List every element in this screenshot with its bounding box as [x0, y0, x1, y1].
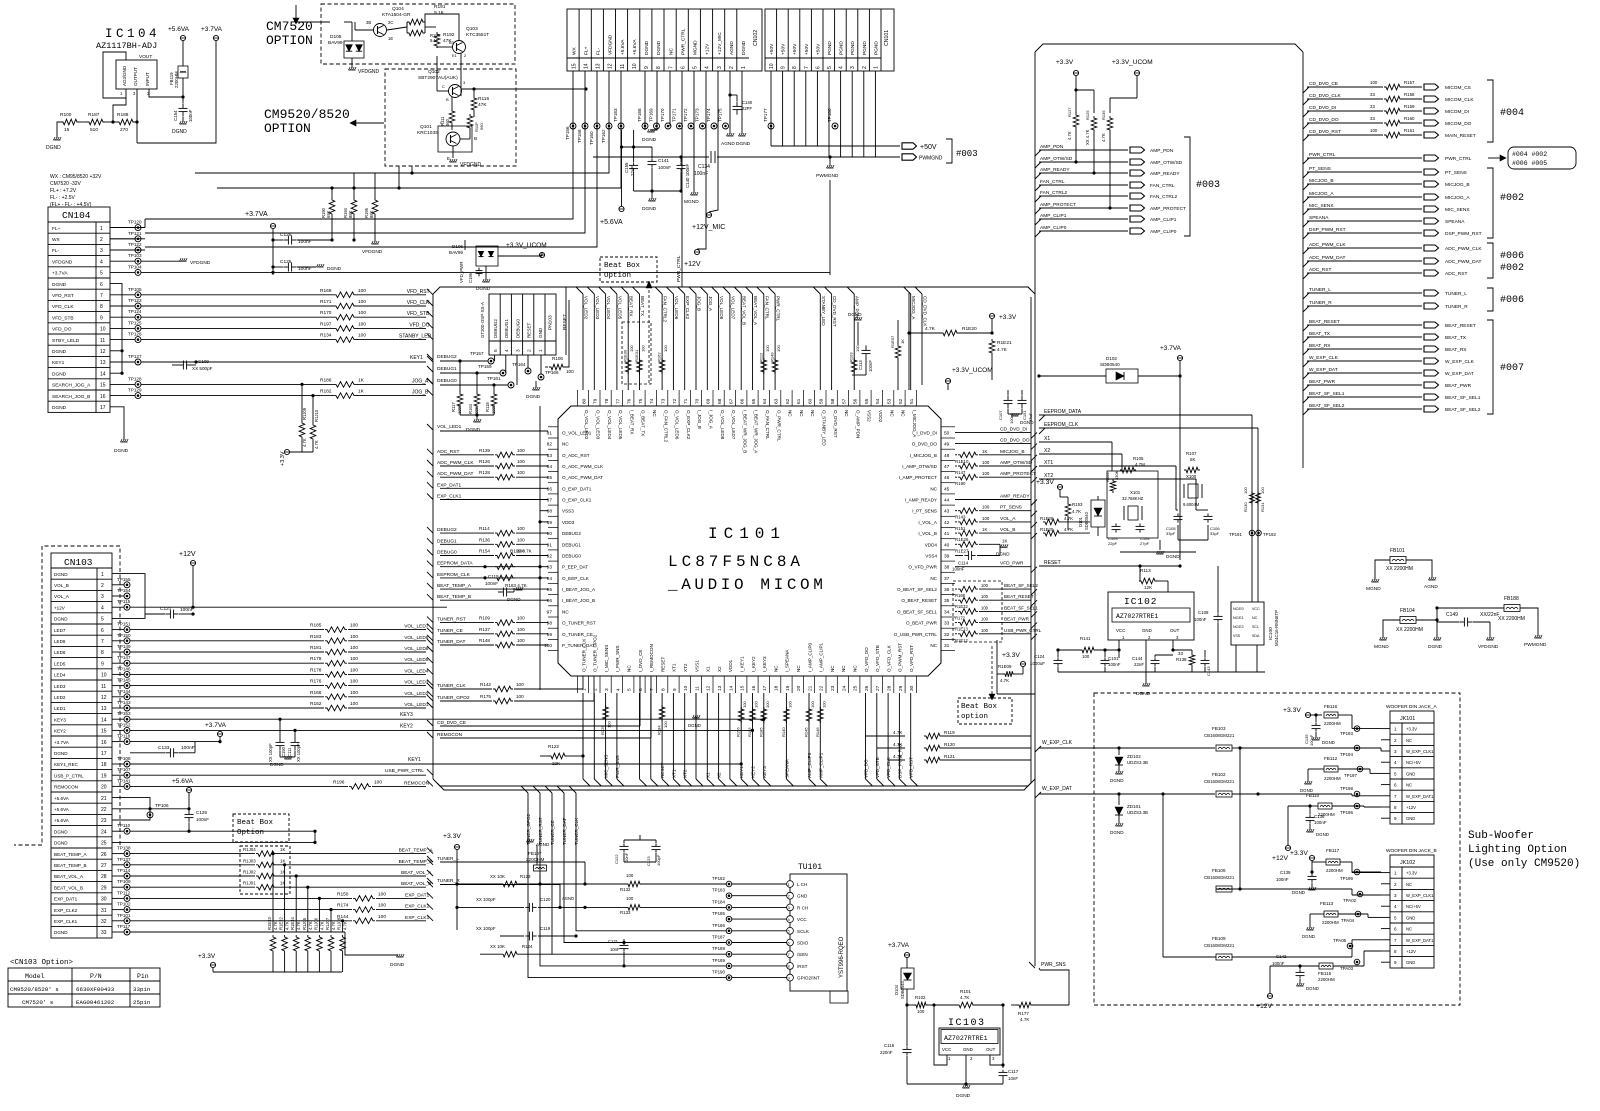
svg-text:KEY2: KEY2	[751, 766, 756, 778]
svg-text:PT_SENS: PT_SENS	[1000, 505, 1022, 511]
svg-text:AMP_CLIP0: AMP_CLIP0	[1150, 229, 1177, 235]
svg-text:5: 5	[693, 66, 699, 69]
svg-text:TP138: TP138	[117, 846, 131, 851]
net tag MAIN_RESET	[1424, 132, 1439, 138]
ground DGND right of C125	[317, 266, 324, 268]
svg-text:6630XF00433: 6630XF00433	[76, 986, 115, 993]
svg-text:14: 14	[101, 717, 107, 723]
svg-text:OUT: OUT	[1170, 628, 1180, 633]
resistor R150 100 row EXP_DAT1	[130, 897, 352, 899]
svg-text:W_EXP_DAT: W_EXP_DAT	[1309, 367, 1338, 373]
svg-text:EEPROM_CLK: EEPROM_CLK	[437, 572, 471, 578]
resistor R104 330K	[1110, 479, 1116, 493]
svg-text:R105: R105	[1133, 456, 1144, 461]
svg-text:100nF: 100nF	[1314, 820, 1327, 825]
svg-text:6: 6	[100, 282, 103, 288]
test point TP112	[124, 895, 130, 901]
wire VFD_PWR RESET row	[955, 566, 1031, 568]
svg-text:+3.7VA: +3.7VA	[1160, 345, 1182, 352]
wire VSS3 VDD3 stubs	[540, 510, 548, 512]
svg-text:330K: 330K	[1114, 470, 1119, 480]
svg-text:4.7K: 4.7K	[308, 921, 313, 930]
test point TP193	[1354, 726, 1360, 732]
resistor R135 4.7K	[1107, 116, 1113, 132]
svg-text:R1E26: R1E26	[955, 537, 969, 542]
TU101 pin 2 GND	[787, 892, 794, 899]
svg-text:32: 32	[944, 632, 950, 638]
svg-text:C150: C150	[281, 746, 286, 757]
svg-text:R190: R190	[955, 481, 966, 486]
svg-text:O_VOL_LED7: O_VOL_LED7	[731, 410, 736, 440]
svg-text:I_DVD_CE: I_DVD_CE	[638, 650, 643, 672]
svg-text:9.1K: 9.1K	[434, 10, 445, 16]
svg-text:GND: GND	[963, 1047, 973, 1052]
svg-text:REMOCON: REMOCON	[404, 780, 430, 786]
ground MGND FB101	[1372, 581, 1379, 583]
svg-text:ADJ/GND: ADJ/GND	[122, 65, 127, 86]
net tag PWMGND	[902, 154, 917, 160]
net tag W_EXP_DAT	[1424, 370, 1439, 376]
ground DGND left	[57, 122, 61, 138]
svg-text:34: 34	[944, 609, 950, 615]
svg-text:89: 89	[547, 520, 553, 526]
svg-text:R162: R162	[657, 352, 662, 362]
resistor R182 1K row JOG_B	[141, 395, 334, 397]
svg-text:MAIN_RESET: MAIN_RESET	[1445, 133, 1476, 139]
power +3.3V right of IC top	[989, 313, 994, 318]
wire IC101 bottom pin 2 drop	[593, 693, 595, 779]
connector CN104	[48, 207, 110, 412]
capacitor C134 100nF series	[709, 151, 717, 163]
svg-text:25: 25	[853, 685, 859, 691]
svg-text:NC: NC	[652, 410, 657, 417]
arrow into CM7520 box	[295, 5, 297, 18]
svg-text:VFD_STB: VFD_STB	[875, 757, 880, 778]
svg-text:100nF: 100nF	[181, 745, 195, 751]
svg-text:ADC_RST: ADC_RST	[1309, 267, 1331, 273]
svg-text:1E: 1E	[388, 36, 393, 41]
svg-text:C121: C121	[608, 939, 619, 944]
svg-text:B: B	[474, 136, 477, 141]
resistor R1E22 4.7K vertical	[284, 865, 286, 932]
svg-text:1K: 1K	[982, 527, 987, 532]
svg-text:TP121: TP121	[128, 231, 142, 236]
svg-text:DEBUG2: DEBUG2	[493, 319, 498, 338]
resistor R1E30 100 on drop BEAT_RX	[625, 358, 631, 374]
svg-text:TUNER_CE: TUNER_CE	[550, 820, 555, 845]
svg-text:2200HM: 2200HM	[1322, 920, 1339, 925]
wire AMP_PROTECT row block003	[1035, 208, 1041, 214]
svg-text:7: 7	[649, 688, 655, 691]
svg-text:VFDGND: VFDGND	[1478, 644, 1499, 650]
capacitor C154 100nF	[182, 97, 184, 103]
test point TP156	[570, 123, 576, 129]
net tag PT_SENS	[1424, 169, 1439, 175]
svg-text:100: 100	[663, 721, 668, 728]
svg-text:W_EXP_DAT: W_EXP_DAT	[1445, 371, 1474, 377]
svg-text:VOL_LED5: VOL_LED5	[404, 657, 429, 663]
capacitor C155 22uF	[633, 162, 635, 165]
svg-text:GT200-OSP-SS-A: GT200-OSP-SS-A	[480, 302, 485, 338]
ground AGND FB101	[1429, 579, 1436, 581]
test point TP196	[1354, 803, 1360, 809]
svg-text:BEAT_RX: BEAT_RX	[1445, 347, 1467, 353]
svg-text:CB1608GM221: CB1608GM221	[1204, 875, 1235, 880]
svg-text:47: 47	[944, 464, 950, 470]
svg-text:30: 30	[101, 897, 107, 903]
capacitor C140 100uF	[680, 157, 682, 162]
svg-text:R187: R187	[88, 112, 100, 118]
wire row AMP_OTW/SD from IC101 pin 47	[955, 465, 957, 467]
svg-text:TP171: TP171	[672, 108, 677, 122]
svg-text:100nF: 100nF	[1272, 961, 1285, 966]
svg-text:R197: R197	[320, 321, 332, 327]
svg-text:+5.6VA: +5.6VA	[172, 778, 194, 785]
wire drop EXP_CLK2 to IC101 top pin 71	[678, 287, 685, 294]
svg-text:TP107: TP107	[117, 767, 131, 772]
power +3.3V bottom-left	[210, 962, 215, 967]
svg-text:R140: R140	[781, 727, 786, 737]
svg-text:DEBUG1: DEBUG1	[437, 366, 457, 372]
wire BEAT_RESET row right column	[1303, 325, 1309, 331]
resistor R103 100 on drop AMP_PDN	[851, 358, 857, 374]
right block bus vertical	[1302, 52, 1304, 468]
dashed box beat reset resistors	[953, 581, 1002, 642]
svg-text:BEAT_VOL_B: BEAT_VOL_B	[401, 881, 431, 887]
svg-text:TP127: TP127	[128, 354, 142, 359]
svg-text:56: 56	[853, 398, 859, 404]
svg-text:NC: NC	[627, 665, 632, 672]
vertical taps to JK102 nets	[1239, 748, 1241, 889]
svg-text:VOL_LED7: VOL_LED7	[730, 296, 735, 320]
svg-text:FL+: FL+	[52, 226, 61, 232]
test point TP123	[135, 303, 141, 309]
svg-text:AMP_CLIP0: AMP_CLIP0	[807, 752, 812, 778]
svg-text:R157: R157	[1404, 80, 1415, 85]
svg-text:2200HM: 2200HM	[1324, 776, 1341, 781]
svg-text:O_VOL_LED2: O_VOL_LED2	[584, 410, 589, 440]
svg-text:BEAT_VOL_A: BEAT_VOL_A	[753, 296, 758, 326]
svg-text:4: 4	[1394, 760, 1397, 765]
svg-text:TP110: TP110	[117, 823, 131, 828]
svg-text:FL- : +2.5V: FL- : +2.5V	[50, 195, 76, 201]
svg-text:61: 61	[796, 398, 802, 404]
svg-text:L CH: L CH	[797, 882, 807, 887]
wire drop BEAT_VOL_A to IC101 top pin 65	[746, 287, 753, 294]
svg-text:4.7K: 4.7K	[997, 347, 1008, 353]
svg-text:O_EEP_CLK: O_EEP_CLK	[562, 576, 590, 581]
arrow CM9520 option	[356, 122, 384, 124]
svg-text:BEAT_SF_SEL2: BEAT_SF_SEL2	[1004, 583, 1038, 588]
svg-text:3B: 3B	[366, 20, 371, 25]
svg-text:43: 43	[944, 509, 950, 515]
svg-text:ADC_PWM_DAT: ADC_PWM_DAT	[1309, 255, 1345, 261]
svg-text:NC/E1: NC/E1	[1233, 616, 1244, 620]
svg-text:+5.6VA: +5.6VA	[168, 26, 190, 33]
resistor R190 68K vertical	[329, 198, 335, 216]
svg-text:R1J10: R1J10	[314, 409, 319, 422]
svg-text:1000uF: 1000uF	[1030, 661, 1045, 666]
svg-text:+3.3V: +3.3V	[1283, 707, 1301, 714]
svg-text:10: 10	[100, 327, 106, 333]
svg-text:3: 3	[100, 248, 103, 254]
svg-text:R123: R123	[520, 874, 531, 879]
wire W_EXP_DAT1 to JK101	[1290, 793, 1352, 795]
capacitor C135 100nF	[1315, 715, 1317, 722]
svg-text:DGND: DGND	[327, 266, 342, 272]
svg-text:100: 100	[742, 701, 747, 708]
svg-text:UDZS3.3B: UDZS3.3B	[1127, 810, 1148, 815]
connector CN102	[567, 9, 762, 71]
resistor R140 100 on drop pin 19	[784, 707, 790, 723]
svg-text:PGND: PGND	[873, 41, 879, 55]
test point TP125	[135, 325, 141, 331]
svg-text:39: 39	[944, 554, 950, 560]
svg-text:R131: R131	[1260, 502, 1265, 512]
svg-text:JOG_A: JOG_A	[708, 296, 713, 312]
svg-text:KEY3: KEY3	[54, 717, 66, 722]
svg-text:PWR_CTRL: PWR_CTRL	[1445, 156, 1472, 162]
svg-text:DEBUG0: DEBUG0	[515, 319, 520, 338]
svg-text:100pF: 100pF	[656, 854, 661, 866]
svg-text:26: 26	[101, 852, 107, 858]
svg-text:TP180: TP180	[827, 108, 832, 122]
dashed box Beat Box Option left	[233, 814, 289, 842]
svg-text:PWR_CTRL: PWR_CTRL	[776, 296, 781, 322]
svg-text:R1J07: R1J07	[325, 917, 330, 930]
test point TP168	[642, 123, 648, 129]
svg-text:100: 100	[358, 333, 366, 339]
power +3.3V block003	[1073, 70, 1078, 75]
svg-text:77: 77	[615, 398, 621, 404]
svg-text:GND: GND	[1142, 628, 1152, 633]
CN104 row wires	[110, 227, 145, 229]
svg-text:MGND: MGND	[1366, 586, 1381, 592]
svg-text:RESET: RESET	[660, 762, 665, 778]
svg-text:O_EXP_CLK1: O_EXP_CLK1	[562, 498, 592, 503]
test point TP110	[124, 828, 130, 834]
svg-text:TP177: TP177	[763, 108, 768, 122]
ground VFDGND below R195	[374, 230, 376, 242]
capacitor C133 100nF	[165, 752, 170, 754]
svg-text:O_STANBY_LED: O_STANBY_LED	[822, 410, 827, 446]
resistor R164 100K	[476, 373, 478, 392]
svg-text:DGND: DGND	[642, 206, 657, 212]
svg-text:O_FAN_CTRL: O_FAN_CTRL	[765, 410, 770, 440]
svg-text:NC/E0: NC/E0	[1233, 607, 1244, 611]
resistors EEPROM rows	[495, 564, 515, 570]
svg-text:R137: R137	[479, 627, 490, 632]
wire CN104 pin5 +3.7VA rail	[141, 271, 830, 273]
svg-text:VFDGND: VFDGND	[358, 69, 380, 75]
wire drop CD_DVD_RST to IC101 top pin 58	[825, 287, 832, 294]
svg-text:CM7520' s: CM7520' s	[22, 999, 53, 1006]
test point TP152	[124, 727, 130, 733]
svg-text:_AUDIO MICOM: _AUDIO MICOM	[667, 576, 826, 594]
svg-text:+12V: +12V	[179, 551, 196, 558]
svg-text:2: 2	[862, 66, 868, 69]
svg-text:KEY2: KEY2	[400, 723, 413, 729]
net tag AMP_OTW/SD	[1130, 159, 1145, 165]
svg-text:EAG00461202: EAG00461202	[76, 999, 115, 1006]
svg-text:KEY3: KEY3	[400, 712, 413, 718]
svg-text:KEY1_REC: KEY1_REC	[54, 762, 79, 767]
ground DGND crystals	[1159, 540, 1161, 550]
wire CN102 pin15 WX staircase	[145, 71, 573, 219]
svg-text:R156: R156	[736, 727, 741, 737]
wire IC101 bottom pin 7 drop	[650, 693, 652, 779]
dashed box CM9520/8520 OPTION	[385, 69, 516, 166]
svg-text:1: 1	[1394, 871, 1397, 876]
test point TP184	[726, 905, 732, 911]
svg-text:D102: D102	[1106, 356, 1117, 361]
test point TP174	[711, 123, 717, 129]
capacitor C124 1000uF	[1057, 657, 1059, 660]
bracket #003 right	[1184, 137, 1190, 236]
IC101 body outline	[558, 406, 941, 676]
net tag TUNER_R	[1424, 303, 1439, 309]
svg-text:12: 12	[101, 695, 107, 701]
crystal X101 32.768KHZ circuit box	[1107, 471, 1158, 538]
svg-text:49: 49	[944, 442, 950, 448]
svg-text:C144: C144	[1132, 656, 1143, 661]
svg-text:DGND: DGND	[172, 129, 187, 135]
svg-text:O_BEAT_TX: O_BEAT_TX	[641, 410, 646, 436]
svg-text:PWMGND: PWMGND	[816, 173, 839, 179]
svg-text:51: 51	[909, 398, 915, 404]
svg-text:VOL_B: VOL_B	[1000, 527, 1015, 533]
svg-text:3: 3	[717, 66, 723, 69]
svg-text:AMP_READY: AMP_READY	[1000, 494, 1030, 500]
svg-text:BAV99: BAV99	[328, 40, 343, 46]
svg-text:23: 23	[830, 685, 836, 691]
svg-text:36: 36	[944, 587, 950, 593]
svg-text:BEAT_SF_SEL2: BEAT_SF_SEL2	[1309, 403, 1345, 409]
resistor R106 100	[545, 366, 548, 368]
power +3.3V jog pullups	[290, 451, 313, 453]
wire +5.6VA pin11 down	[621, 130, 623, 206]
svg-text:/SEN: /SEN	[797, 952, 808, 957]
svg-text:2200HM: 2200HM	[174, 71, 179, 88]
svg-text:100: 100	[350, 623, 358, 629]
resistor R179 100 row VOL_LED5	[130, 662, 324, 664]
svg-text:AMP_OTW/SD: AMP_OTW/SD	[1000, 460, 1033, 466]
svg-text:7: 7	[668, 66, 674, 69]
svg-text:100: 100	[350, 701, 358, 707]
svg-text:12: 12	[706, 685, 712, 691]
resistor R195 88K vertical	[372, 198, 378, 216]
svg-text:510: 510	[90, 127, 98, 133]
top border rail to right blocks	[1035, 44, 1303, 52]
svg-text:TP186: TP186	[712, 923, 725, 928]
wire FAN_CTRL row block003	[1035, 185, 1041, 191]
svg-text:BEAT_PWR: BEAT_PWR	[1309, 379, 1336, 385]
svg-text:TP182: TP182	[712, 876, 725, 881]
svg-text:TP149: TP149	[117, 644, 131, 649]
svg-text:TP162: TP162	[601, 129, 606, 143]
svg-text:TPA02: TPA02	[1343, 898, 1357, 903]
wire CD_DVD_CLK row right column	[1303, 99, 1309, 105]
ferrite bead FB115 2200HM	[1319, 963, 1333, 969]
svg-text:LED6: LED6	[54, 650, 66, 655]
svg-text:I_MIC_SENS: I_MIC_SENS	[604, 645, 609, 672]
svg-text:FL+ : +7.2V: FL+ : +7.2V	[50, 188, 77, 194]
svg-text:FAN_CTRL: FAN_CTRL	[1040, 179, 1065, 185]
svg-text:+50V: +50V	[815, 43, 821, 55]
svg-text:R133: R133	[620, 910, 631, 915]
svg-text:100K: 100K	[457, 404, 462, 414]
power +3.7VA CN103 row16	[217, 731, 222, 736]
svg-text:Option: Option	[237, 829, 264, 837]
svg-text:XX 4.7K: XX 4.7K	[1085, 129, 1090, 145]
resistor R1J01 1K row BEAT_VOL_B	[130, 886, 255, 888]
test point TP115	[124, 604, 130, 610]
test point TP151	[124, 627, 130, 633]
wire IC101 bottom pin 10 drop	[684, 693, 686, 779]
resistor R1E13 100 row BEAT_PWR	[955, 622, 957, 624]
svg-text:KTC3551T: KTC3551T	[466, 32, 489, 38]
svg-text:BAV99: BAV99	[449, 250, 463, 255]
svg-text:BEAT_RESET: BEAT_RESET	[1445, 323, 1476, 329]
svg-text:TP197: TP197	[1344, 773, 1357, 778]
wire parallel resistors	[406, 22, 408, 33]
svg-text:+3.3V: +3.3V	[198, 953, 216, 960]
svg-text:BEAT_RESET: BEAT_RESET	[1004, 594, 1034, 599]
svg-text:EXP_CLK2: EXP_CLK2	[405, 904, 430, 910]
svg-text:+5.6VA: +5.6VA	[54, 796, 70, 801]
svg-text:O_TUNER_CLK: O_TUNER_CLK	[581, 638, 586, 672]
svg-text:BEAT_TEMP_B: BEAT_TEMP_B	[54, 863, 87, 868]
svg-text:VOUT: VOUT	[139, 54, 152, 60]
svg-text:TP103: TP103	[128, 253, 142, 258]
net tag TUNER_L	[1424, 290, 1439, 296]
capacitor C117 10nF	[1002, 1070, 1004, 1073]
svg-text:4: 4	[101, 605, 104, 611]
svg-text:O_BEAT_RESET: O_BEAT_RESET	[901, 598, 937, 603]
svg-text:MGND: MGND	[684, 199, 699, 205]
svg-text:R1E34: R1E34	[290, 917, 295, 930]
svg-text:CD_DVD_DI: CD_DVD_DI	[1309, 105, 1336, 111]
capacitor C103 22pF	[1115, 523, 1117, 526]
svg-text:C154: C154	[173, 110, 178, 121]
svg-text:O_VOL_LED4: O_VOL_LED4	[607, 410, 612, 440]
wire BEAT_PWR row right column	[1303, 385, 1309, 391]
svg-text:2C: 2C	[388, 20, 393, 25]
test point TP121	[135, 236, 141, 242]
wire MICJOG_B row right column	[1303, 184, 1309, 190]
svg-text:C: C	[440, 120, 443, 125]
svg-text:MICOM_CLK: MICOM_CLK	[1445, 97, 1474, 103]
resistor R178 100 row VOL_LED4	[130, 673, 324, 675]
test point TP186	[726, 928, 732, 934]
svg-text:DGND: DGND	[390, 962, 405, 968]
svg-text:80: 80	[581, 398, 587, 404]
svg-text:AMP_CLIP1: AMP_CLIP1	[818, 752, 823, 778]
svg-text:R1E10: R1E10	[955, 459, 969, 464]
svg-text:Sub-Woofer: Sub-Woofer	[1468, 830, 1534, 842]
svg-text:O_DVD_DO: O_DVD_DO	[912, 442, 938, 447]
svg-text:C149: C149	[1446, 612, 1458, 618]
resistor R1E28 4.7K	[1043, 519, 1061, 525]
svg-text:MIC_SENS: MIC_SENS	[1309, 203, 1334, 209]
svg-text:PT_SENS: PT_SENS	[1309, 166, 1331, 172]
svg-text:+3.3V: +3.3V	[1036, 479, 1054, 486]
ground DGND VSS4	[1001, 546, 1008, 548]
svg-text:4: 4	[839, 66, 845, 69]
svg-text:32: 32	[101, 919, 107, 925]
svg-text:3: 3	[604, 688, 610, 691]
svg-text:100: 100	[982, 505, 990, 510]
